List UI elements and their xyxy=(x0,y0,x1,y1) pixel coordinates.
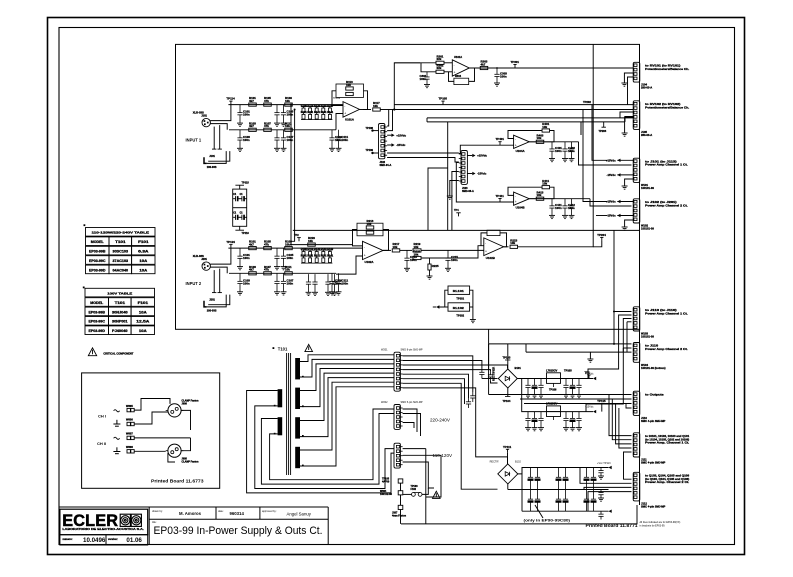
svg-text:R111: R111 xyxy=(307,111,313,114)
transformer secondary winding 1 xyxy=(295,358,300,379)
XLR input connector J101 xyxy=(202,118,210,126)
svg-text:to Outputs: to Outputs xyxy=(645,392,664,396)
wire bundle pin2 xyxy=(403,361,482,369)
+15Vdc arrow W102a xyxy=(617,200,620,203)
+15Vdc arrow W101a xyxy=(617,159,620,162)
wire -15 rail to W104 xyxy=(586,319,632,412)
upper aux line xyxy=(427,117,633,119)
svg-text:R111: R111 xyxy=(307,254,313,257)
capacitor C7118 bottom xyxy=(556,490,561,512)
resistor R219 xyxy=(413,249,421,252)
connector J103 SMD mid xyxy=(461,151,467,185)
svg-text:+15Vdc: +15Vdc xyxy=(606,159,616,163)
capacitor C631 rail2 xyxy=(570,412,575,428)
svg-text:100n: 100n xyxy=(342,281,349,285)
resistor R221 xyxy=(413,256,421,259)
svg-text:TP2: TP2 xyxy=(294,234,299,237)
capacitor C203 xyxy=(274,248,279,267)
svg-text:F101: F101 xyxy=(138,301,149,305)
capacitor C7126 bottom xyxy=(584,490,589,512)
-15Vdc arrow W101b xyxy=(617,173,620,176)
svg-text:CH I: CH I xyxy=(98,413,106,418)
svg-text:100n: 100n xyxy=(420,77,427,81)
connector W101 to power amp ch1 xyxy=(633,158,640,182)
capacitor C7100 bottom xyxy=(528,490,533,512)
capacitor C401 ground xyxy=(549,159,555,162)
wire U101A output xyxy=(360,109,372,111)
+Vcc arrow bank xyxy=(609,466,612,469)
svg-text:47k: 47k xyxy=(264,99,269,103)
svg-text:R120: R120 xyxy=(314,104,321,107)
svg-text:TP109: TP109 xyxy=(366,149,374,152)
capacitor C620 rail2 xyxy=(525,412,530,428)
svg-text:-: - xyxy=(485,242,486,246)
test point TP214 xyxy=(297,238,301,242)
wire mid strip pin7 down xyxy=(450,181,459,197)
wire transformer primary lead 4 xyxy=(270,409,394,480)
svg-text:CLAMP Faston: CLAMP Faston xyxy=(182,460,199,463)
svg-text:100n: 100n xyxy=(287,113,294,117)
input/preamp section box xyxy=(176,44,640,329)
svg-text:4k7: 4k7 xyxy=(249,124,254,128)
resistor R215 feedback xyxy=(366,231,374,234)
svg-text:100101-09 (bottom): 100101-09 (bottom) xyxy=(641,366,666,370)
wire +15 rail to W103 xyxy=(588,315,632,379)
resistor R203 xyxy=(264,247,272,250)
wire W103 pin4 xyxy=(627,321,632,323)
svg-text:F102: F102 xyxy=(411,488,417,491)
connector W203 primary tap 110-120 xyxy=(394,443,400,468)
wire bundle pin3 xyxy=(403,365,508,369)
svg-text:10k: 10k xyxy=(285,243,290,247)
wire channel link B xyxy=(291,110,295,242)
svg-text:W606: W606 xyxy=(126,418,133,422)
svg-text:-15Vdc: -15Vdc xyxy=(477,172,487,176)
op-amp U103A xyxy=(452,60,469,76)
capacitor C602 rail1 ground xyxy=(538,395,544,398)
wire conn J105 feed up1 xyxy=(620,112,633,118)
svg-text:R120: R120 xyxy=(314,248,321,251)
capacitor C7026 top xyxy=(584,468,589,490)
capacitor C7018 top xyxy=(556,468,561,490)
svg-text:B101: B101 xyxy=(515,366,522,370)
wire fuse to right xyxy=(422,488,428,494)
AC symbol CH II xyxy=(114,437,120,439)
svg-text:EP03-99 In-Power Supply & Outs: EP03-99 In-Power Supply & Outs Ct. xyxy=(154,525,323,537)
wire pad W606 to clamp J606 xyxy=(134,412,168,424)
wire relay RL101 right xyxy=(470,290,473,319)
capacitor C204 ground xyxy=(274,292,280,295)
wire transformer secondary lead 3 xyxy=(300,364,394,391)
wire W101 gnd stub xyxy=(625,179,634,186)
svg-text:TP4: TP4 xyxy=(454,209,459,212)
svg-text:M. Amoros: M. Amoros xyxy=(179,511,202,516)
wire bank to J112 pin3 xyxy=(584,487,632,489)
svg-text:10k: 10k xyxy=(373,104,378,108)
upper aux line drop xyxy=(426,118,428,122)
wire U103A feedback left xyxy=(449,72,454,82)
wire U103A output bus xyxy=(469,67,633,69)
wire input1 aux bus xyxy=(394,104,633,106)
mid box top wire right xyxy=(581,121,625,123)
capacitor C7000 top xyxy=(528,468,533,490)
svg-text:4k7: 4k7 xyxy=(249,99,254,103)
svg-text:R131: R131 xyxy=(321,111,328,114)
capacitor C802 series xyxy=(479,369,484,379)
fuse F102 xyxy=(412,493,423,497)
svg-text:TP203: TP203 xyxy=(599,129,607,133)
power supply box bottom edge xyxy=(401,505,637,524)
capacitor C801 snubber xyxy=(470,392,475,402)
svg-text:4k7: 4k7 xyxy=(249,243,254,247)
table 110-120W/220-240V TABLE cell r2c0 xyxy=(86,256,110,265)
svg-text:TP401: TP401 xyxy=(496,137,505,141)
svg-text:Power Amp Channel 2 Ct.: Power Amp Channel 2 Ct. xyxy=(645,347,688,351)
capacitor C222 ground xyxy=(325,292,331,295)
connector W104 to power amp ch2 supply xyxy=(633,343,640,363)
svg-text:U104A: U104A xyxy=(516,149,526,153)
-15Vdc arrow J102 pin5 xyxy=(391,143,394,146)
XLR input connector J201 xyxy=(202,262,210,270)
svg-text:SMD 5-pin SMJ-MP: SMD 5-pin SMJ-MP xyxy=(401,401,423,404)
svg-text:J101: J101 xyxy=(201,113,207,117)
resistor network input 1 xyxy=(301,107,332,120)
wire J102 arrows link xyxy=(387,134,391,136)
mid box right wire xyxy=(580,122,582,135)
pad TP601 xyxy=(398,479,403,483)
AC symbol CH I xyxy=(114,410,120,412)
feedback resistor network U101A xyxy=(336,84,364,97)
wire input2 top bus extension xyxy=(343,247,363,249)
table 110-120W/220-240V TABLE cell r0c0 xyxy=(86,237,110,246)
svg-text:+15Vdc: +15Vdc xyxy=(396,133,406,137)
faston pad W606 xyxy=(127,422,130,425)
capacitor C411 xyxy=(549,199,554,216)
wire transformer secondary lead 5 xyxy=(300,373,394,420)
capacitor C106 xyxy=(281,130,286,149)
capacitor C7023 top xyxy=(591,468,596,490)
svg-text:J606: J606 xyxy=(182,402,188,405)
wire J102 pin2 up to bus xyxy=(387,110,392,131)
svg-text:100n: 100n xyxy=(410,258,417,262)
wire J102 pin1 up to bus xyxy=(387,110,389,127)
main right vertical bus xyxy=(639,44,641,505)
svg-text:TP202: TP202 xyxy=(583,100,591,104)
-Vcc arrow bank xyxy=(609,510,612,513)
table 100V TABLE cell r1c0 xyxy=(85,307,109,316)
wire U104B to conn W102 xyxy=(590,199,632,206)
capacitor C103 ground xyxy=(274,123,280,126)
wire J102 arrows link2 xyxy=(387,144,391,146)
table 100V TABLE cell r3c1 xyxy=(109,326,132,335)
resistor R113 feedback xyxy=(346,87,354,90)
voltage regulator VR102 xyxy=(547,406,561,417)
relay RL102 box xyxy=(448,303,470,311)
capacitor C106 ground xyxy=(281,148,287,151)
capacitor C102 xyxy=(237,130,242,149)
svg-text:10A: 10A xyxy=(139,259,148,263)
wire pigtail J101 link2 xyxy=(208,151,230,161)
-15Vdc arrow rail2 xyxy=(593,410,596,413)
wire input 1 bottom bus xyxy=(229,129,336,131)
resistor R102 xyxy=(249,128,257,131)
svg-text:SMD-08-A: SMD-08-A xyxy=(462,190,474,193)
resistor R206 xyxy=(285,272,293,275)
connector W102 to power amp ch2 xyxy=(633,199,640,223)
feedback network U103A below xyxy=(454,78,469,84)
capacitor C101 ground xyxy=(237,123,243,126)
wire pads chain xyxy=(400,495,402,505)
svg-text:R101: R101 xyxy=(301,111,308,114)
svg-text:TP105: TP105 xyxy=(564,369,572,373)
resistor R225 xyxy=(429,258,431,264)
svg-text:100V TABLE: 100V TABLE xyxy=(107,292,132,296)
wire W203 pin3 right xyxy=(403,462,434,488)
capacitor C411 ground xyxy=(549,215,555,218)
wire arrow stub xyxy=(433,306,436,308)
feedback network U102B xyxy=(487,230,500,235)
svg-text:4k7: 4k7 xyxy=(481,62,486,66)
wire conn J105 feed up2 xyxy=(625,117,633,122)
wire XLR J101 pin2 to top bus xyxy=(210,105,231,121)
ground W104 line xyxy=(587,359,593,362)
capacitor C621 rail2 xyxy=(532,412,537,428)
svg-text:W605: W605 xyxy=(126,404,133,408)
svg-text:110-120W/220-240V TABLE: 110-120W/220-240V TABLE xyxy=(92,231,150,235)
capacitor C208 ground xyxy=(336,292,342,295)
table 100V TABLE cell r0c1 xyxy=(109,298,132,307)
wire transformer secondary lead 1 xyxy=(300,355,394,362)
svg-text:100n: 100n xyxy=(243,138,250,142)
svg-text:EP03-99D: EP03-99D xyxy=(89,268,106,272)
wire aux vertical right 2 xyxy=(583,110,608,202)
wire transformer primary lead 1 xyxy=(247,391,394,493)
capacitor C803 series xyxy=(488,371,493,381)
wire branch to inverting path xyxy=(421,63,436,72)
title block field dividers xyxy=(148,507,150,545)
wire W102 arrow2 xyxy=(617,215,633,217)
svg-text:+15Vdc: +15Vdc xyxy=(606,200,616,204)
wire relay RL101 left xyxy=(438,290,448,307)
svg-text:100101-09: 100101-09 xyxy=(641,335,654,339)
wire J102 pin7 to J103 xyxy=(387,158,459,163)
test point TP101 xyxy=(229,101,232,105)
resistor R223 xyxy=(510,245,518,248)
wire +15V rail xyxy=(517,378,593,380)
svg-text:100n: 100n xyxy=(243,113,250,117)
test point TP411 xyxy=(498,199,501,203)
test point TP115 xyxy=(600,404,603,408)
ground mid strip xyxy=(447,196,453,199)
svg-text:6.3A: 6.3A xyxy=(138,250,149,254)
wire transformer secondary lead 4 xyxy=(300,369,394,407)
svg-text:10k: 10k xyxy=(542,182,547,186)
svg-text:30SC103: 30SC103 xyxy=(113,250,129,254)
capacitor C204 xyxy=(274,273,279,292)
svg-text:10k: 10k xyxy=(393,245,398,249)
capacitor C220 xyxy=(306,274,311,292)
svg-text:10k: 10k xyxy=(285,268,290,272)
svg-text:TP1: TP1 xyxy=(585,371,591,375)
transformer primary winding 2 xyxy=(278,417,283,435)
svg-text:U101A: U101A xyxy=(345,118,355,122)
wire W104 pin2 drop xyxy=(622,348,624,352)
transformer secondary winding 3 xyxy=(295,417,300,438)
svg-text:4AF00: 4AF00 xyxy=(382,480,390,483)
resistor R413 xyxy=(536,197,544,200)
capacitor C611 rail1 xyxy=(570,379,575,395)
wire aux line y352 xyxy=(526,351,632,353)
nc termination bars XLR J201 xyxy=(212,292,222,294)
capacitor C630 rail2 xyxy=(563,412,568,428)
resistor R201 xyxy=(249,247,257,250)
table 110-120W/220-240V TABLE cell r1c2 xyxy=(132,246,155,255)
wire bank rail mid xyxy=(522,489,609,491)
resistor R225 ground xyxy=(427,276,433,279)
svg-text:R130: R130 xyxy=(321,104,328,107)
wire W203 pin1 right xyxy=(403,448,426,450)
svg-text:4k7: 4k7 xyxy=(249,268,254,272)
wire clamp J606 right node xyxy=(181,410,190,430)
XLR input connector J201 cable shield pigtail xyxy=(204,301,207,307)
svg-text:TP115: TP115 xyxy=(597,399,606,403)
wire bus y104 to J105 xyxy=(632,109,634,111)
wire feedback left leg xyxy=(332,91,343,106)
capacitor C201 ground xyxy=(237,267,243,270)
pad W604 xyxy=(398,491,403,495)
wire tp115 stub xyxy=(601,407,603,412)
wire into opamp U102B xyxy=(421,249,484,251)
capacitor C202 ground xyxy=(237,292,243,295)
faston pad W608 xyxy=(127,450,130,453)
capacitor C602 rail1 xyxy=(538,379,543,395)
wire XLR J101 pin3 to bottom bus xyxy=(210,124,227,130)
wire node to clamp J605 xyxy=(181,438,190,451)
wire feedback left U102B xyxy=(481,233,487,246)
capacitor C213 xyxy=(404,250,409,268)
svg-text:10k: 10k xyxy=(537,136,542,140)
ground symbol CH II xyxy=(113,447,120,453)
op-amp U101A xyxy=(343,102,360,118)
wire bundle pin7 to B102 xyxy=(403,383,498,489)
wire U104B feedback loop xyxy=(529,187,554,199)
svg-text:100n: 100n xyxy=(500,74,507,78)
capacitor C401 xyxy=(549,142,554,159)
capacitor C223 xyxy=(332,274,337,292)
capacitor C631 rail2 ground xyxy=(570,428,576,431)
svg-text:R225: R225 xyxy=(432,264,439,268)
wire bus riser to conn W103 xyxy=(613,230,615,344)
op-amp U102B xyxy=(484,238,504,256)
svg-text:R100: R100 xyxy=(301,104,308,107)
warning triangle mains xyxy=(433,491,441,498)
svg-text:TP105: TP105 xyxy=(439,97,448,101)
wire outputs to J110 p1 xyxy=(489,394,632,396)
wire pad J107 drop xyxy=(400,510,402,524)
table 100V TABLE cell r1c2 xyxy=(131,307,154,316)
wire J105 gnd stub xyxy=(625,117,634,133)
svg-text:R121: R121 xyxy=(314,111,321,114)
svg-text:960314: 960314 xyxy=(230,511,245,516)
printed board 11.6773 box xyxy=(82,373,220,488)
capacitor C206 ground xyxy=(281,292,287,295)
junction dot top edge xyxy=(613,343,615,345)
transformer secondary winding 2 xyxy=(295,388,300,409)
test point TP301 xyxy=(513,65,516,69)
svg-text:10k: 10k xyxy=(346,83,351,87)
svg-text:100n: 100n xyxy=(342,138,349,142)
svg-text:22k: 22k xyxy=(437,57,442,61)
svg-text:EP03-99C: EP03-99C xyxy=(89,320,106,324)
wire XLR J101 nc stub 1 xyxy=(213,127,215,150)
capacitor C303 xyxy=(494,68,499,83)
junction dot link bottom xyxy=(290,244,292,246)
wire R301 to opamp xyxy=(444,62,452,64)
svg-text:R141: R141 xyxy=(327,254,334,257)
svg-text:+: + xyxy=(515,200,517,204)
svg-text:version:: version: xyxy=(108,538,118,541)
faston pad W607 xyxy=(127,436,130,439)
pad J107 xyxy=(398,505,403,509)
wire conn W102 pin5 xyxy=(596,215,608,217)
capacitor C104 ground xyxy=(274,148,280,151)
junction dot link A top xyxy=(290,104,292,106)
wire W104 gnd stub xyxy=(589,352,591,359)
capacitor C632 rail2 xyxy=(576,412,581,428)
ground relay block xyxy=(470,320,476,323)
svg-text:J201: J201 xyxy=(201,257,207,261)
svg-text:W202: W202 xyxy=(381,401,388,404)
wire W102 gnd stub xyxy=(625,220,634,227)
border frame inner xyxy=(59,28,735,545)
svg-text:R100: R100 xyxy=(301,248,308,251)
svg-text:-: - xyxy=(454,63,455,67)
wire R302 to opamp xyxy=(444,71,452,73)
-15Vdc arrow mid2 xyxy=(472,172,475,175)
svg-text:Angel Sanuy: Angel Sanuy xyxy=(287,512,312,517)
resistor R303 xyxy=(480,66,488,69)
svg-text:TP101: TP101 xyxy=(456,297,464,301)
capacitor C213 ground xyxy=(404,268,410,271)
svg-text:100n: 100n xyxy=(243,281,250,285)
capacitor C601 rail1 xyxy=(532,379,537,395)
table 100V TABLE cell r0c2 xyxy=(131,298,154,307)
svg-text:-15Vdc: -15Vdc xyxy=(396,143,406,147)
wire into opamp U102A xyxy=(336,256,363,274)
svg-text:-15Vdc: -15Vdc xyxy=(607,214,617,218)
wire pad TP601 drop xyxy=(400,483,402,491)
table 100V TABLE cell r2c1 xyxy=(109,317,132,326)
svg-text:37AC103: 37AC103 xyxy=(113,259,129,263)
svg-text:B102: B102 xyxy=(515,460,521,463)
wire pad W605 to clamp J606 xyxy=(134,399,170,411)
warning triangle xyxy=(88,348,96,356)
svg-text:100101-09: 100101-09 xyxy=(641,186,654,190)
ECLER logo box xyxy=(60,509,148,535)
table 110-120W/220-240V TABLE cell r1c0 xyxy=(86,246,110,255)
+15Vdc arrow rail1 xyxy=(593,377,596,380)
capacitor C108 ground xyxy=(336,148,342,151)
resistor R202 xyxy=(249,272,257,275)
wire bank to J112 pin4 xyxy=(588,492,632,512)
wire bank to J112 pin2 xyxy=(580,468,632,484)
svg-text:Potentiometers/Balance Ch.: Potentiometers/Balance Ch. xyxy=(645,67,689,71)
resistor R403 xyxy=(536,140,544,143)
svg-text:W608: W608 xyxy=(126,445,133,449)
wire U103A feedback xyxy=(469,68,475,81)
wire U104B feedback left xyxy=(508,187,542,195)
transformer secondary winding 4 xyxy=(295,447,300,468)
